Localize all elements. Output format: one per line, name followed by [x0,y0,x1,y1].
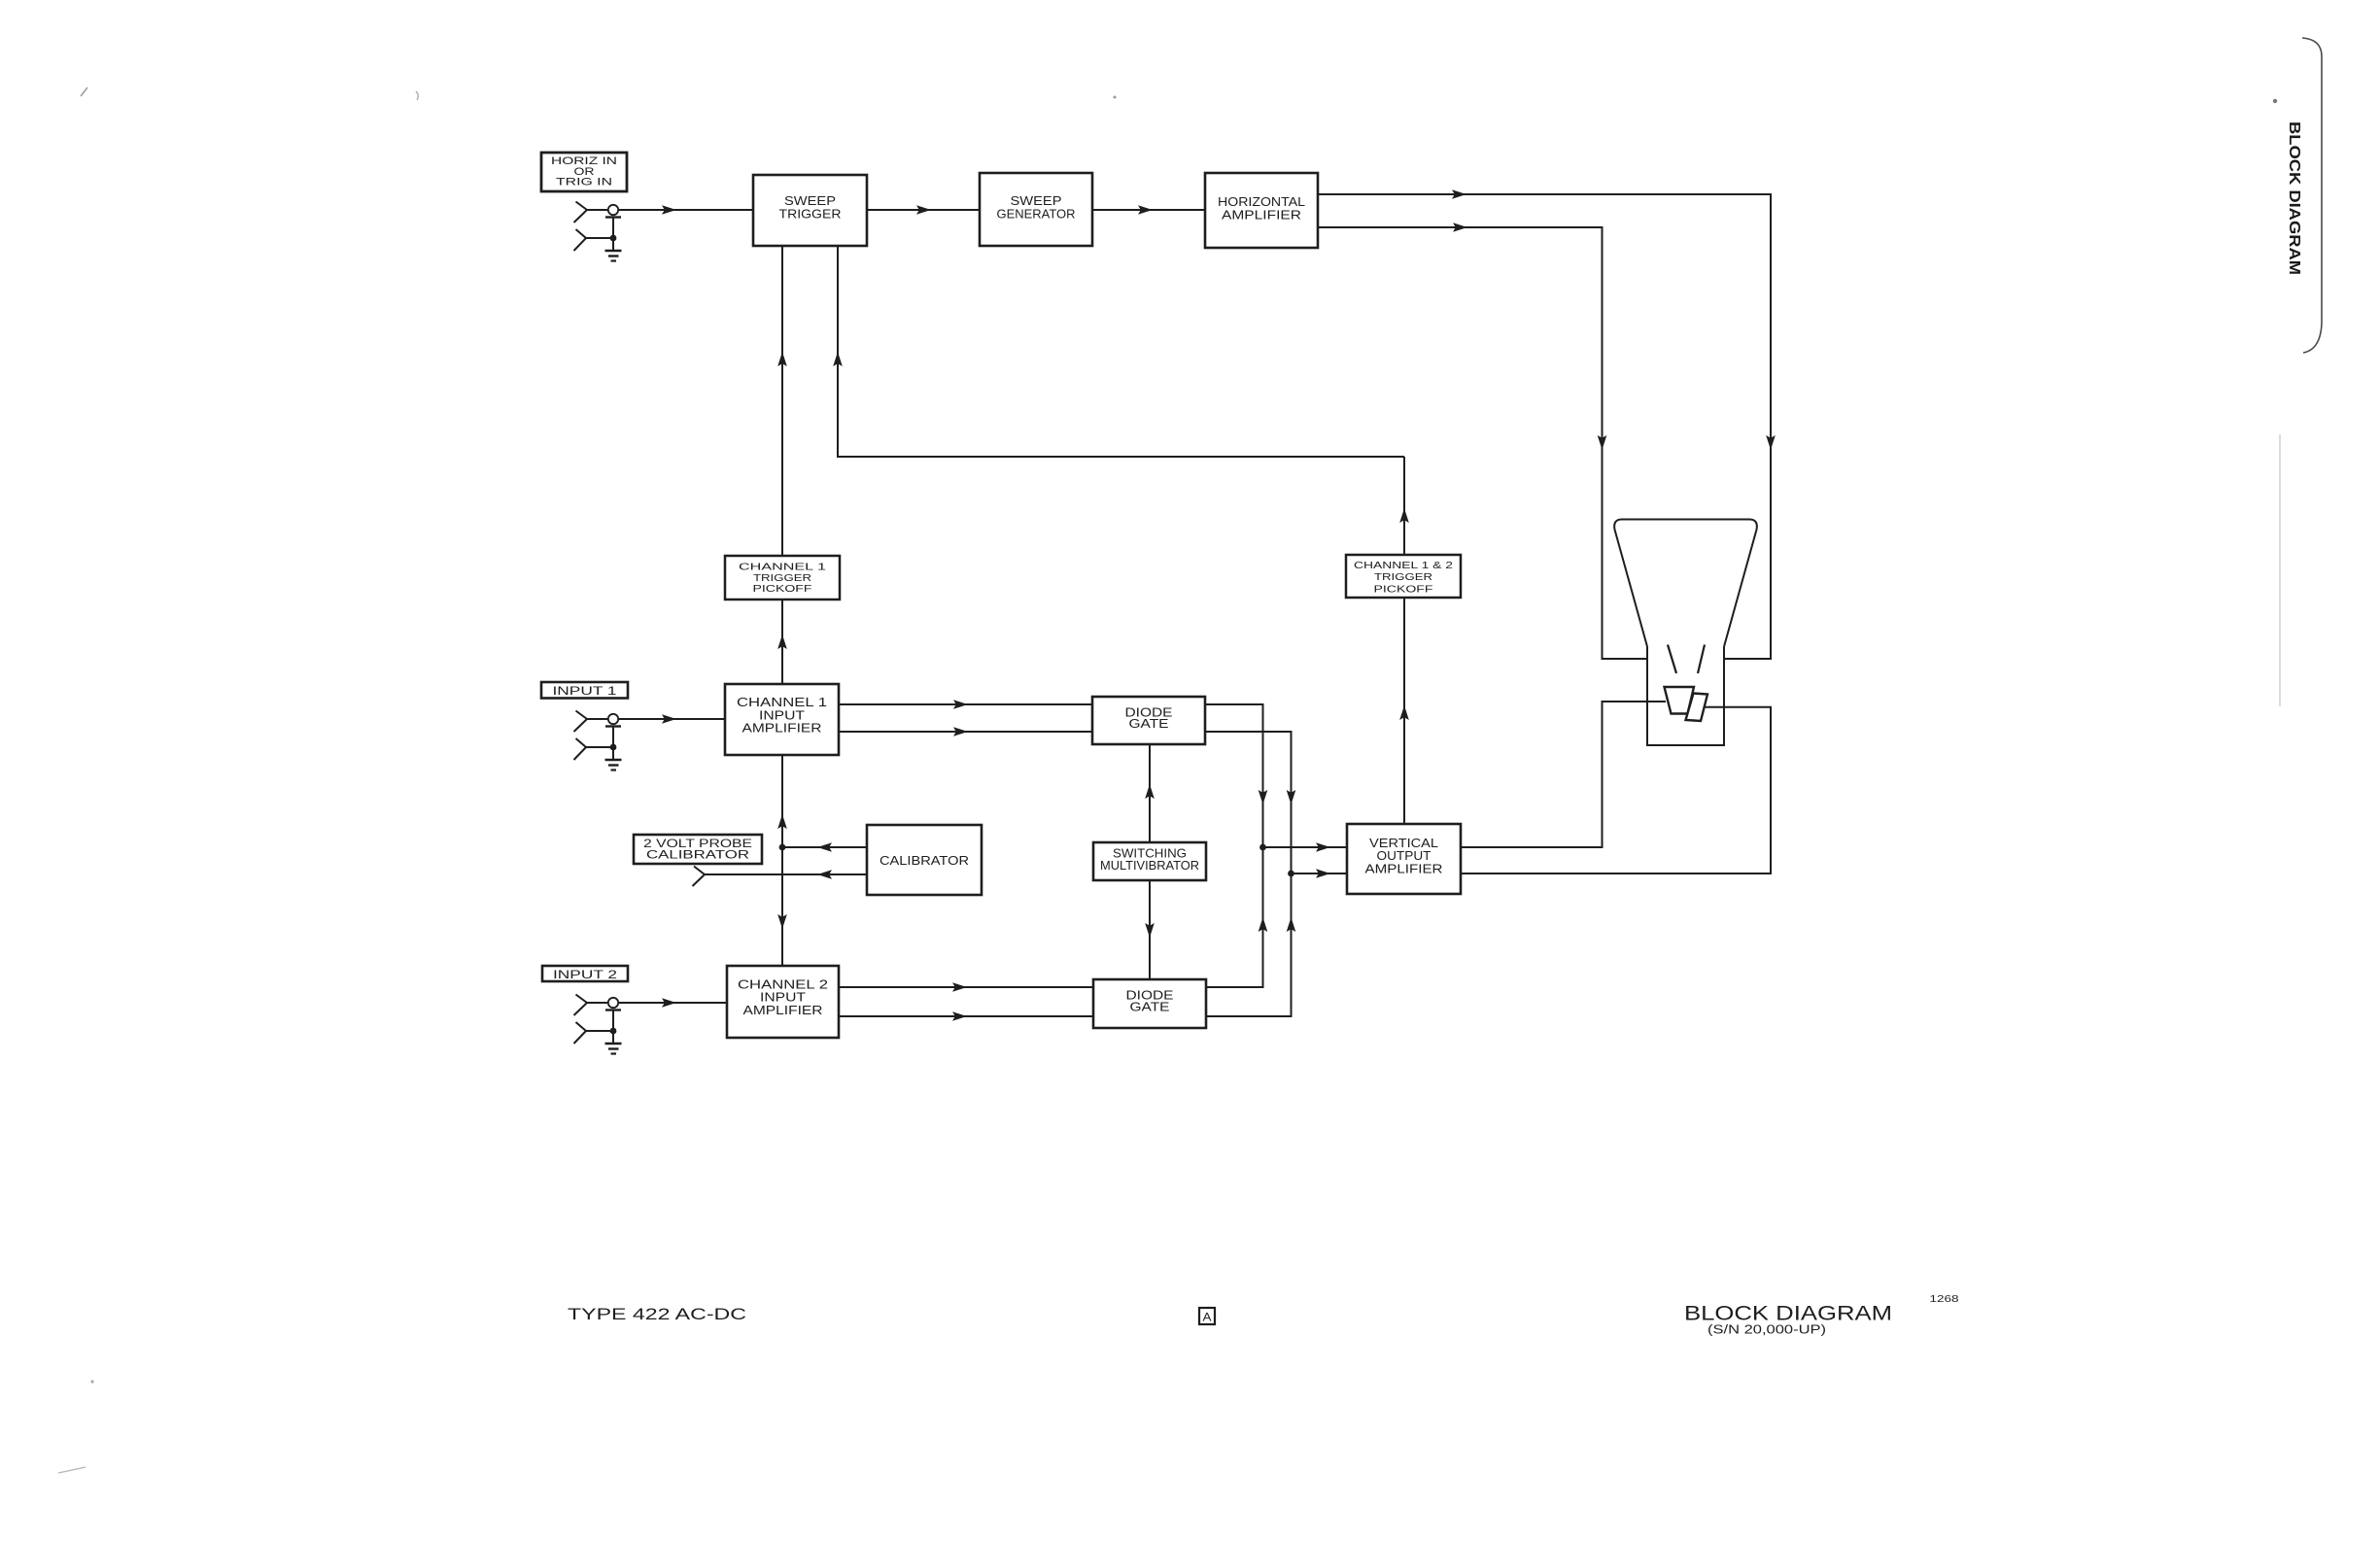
svg-text:CALIBRATOR: CALIBRATOR [646,847,749,861]
svg-text:AMPLIFIER: AMPLIFIER [1365,861,1443,875]
svg-text:PICKOFF: PICKOFF [753,583,812,595]
svg-text:GATE: GATE [1130,999,1170,1013]
svg-text:GATE: GATE [1129,716,1169,731]
svg-text:BLOCK DIAGRAM: BLOCK DIAGRAM [2286,121,2302,275]
svg-text:AMPLIFIER: AMPLIFIER [743,1003,823,1017]
svg-text:CHANNEL 1: CHANNEL 1 [739,562,826,573]
svg-text:INPUT 2: INPUT 2 [553,968,617,981]
svg-text:MULTIVIBRATOR: MULTIVIBRATOR [1100,859,1199,873]
svg-text:CALIBRATOR: CALIBRATOR [880,853,969,868]
svg-text:TRIGGER: TRIGGER [753,572,812,584]
svg-text:PICKOFF: PICKOFF [1374,583,1433,595]
svg-text:GENERATOR: GENERATOR [997,206,1076,221]
svg-text:AMPLIFIER: AMPLIFIER [1222,207,1301,222]
svg-text:1268: 1268 [1930,1293,1959,1305]
svg-text:CHANNEL 1 & 2: CHANNEL 1 & 2 [1354,560,1453,571]
svg-text:TRIGGER: TRIGGER [779,206,842,221]
svg-text:A: A [1203,1313,1212,1324]
svg-text:TYPE 422 AC-DC: TYPE 422 AC-DC [568,1305,746,1323]
svg-text:(S/N 20,000-UP): (S/N 20,000-UP) [1707,1322,1826,1337]
svg-text:TRIG IN: TRIG IN [556,177,612,188]
svg-text:TRIGGER: TRIGGER [1374,571,1433,583]
svg-text:INPUT 1: INPUT 1 [553,684,617,698]
svg-text:AMPLIFIER: AMPLIFIER [742,721,822,736]
